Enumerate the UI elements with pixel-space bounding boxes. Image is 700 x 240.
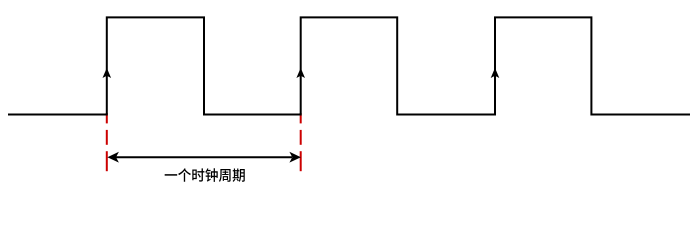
arrowhead rising edge 2 xyxy=(296,68,305,78)
dashed guide right dash 1 xyxy=(300,113,302,123)
label char "期" xyxy=(233,168,245,181)
arrowhead rising edge 3 xyxy=(491,68,500,78)
label 一个时钟周期 xyxy=(165,168,245,182)
dashed guide left dash 2 xyxy=(106,130,108,145)
label char "周" xyxy=(219,169,231,182)
dashed guide right dash 2 xyxy=(300,130,302,145)
label char "一" xyxy=(165,174,178,176)
arrowhead rising edge 1 xyxy=(103,68,112,78)
label char "钟" xyxy=(205,168,217,182)
dashed guide line right (red) xyxy=(300,113,302,171)
label char "时" xyxy=(192,168,204,181)
dashed guide right dash 3 xyxy=(300,151,302,171)
dashed guide left dash 3 xyxy=(106,151,108,171)
dashed guide line left (red), segments: under-line start, mid dash, long bottom dash xyxy=(106,113,108,171)
wire clock waveform xyxy=(8,17,690,114)
dimension arrowhead left xyxy=(107,152,119,163)
label char "个" xyxy=(178,168,191,182)
dashed guide left dash 1 xyxy=(106,113,108,123)
dimension arrow shaft xyxy=(116,156,292,158)
dimension arrowhead right xyxy=(289,152,301,163)
